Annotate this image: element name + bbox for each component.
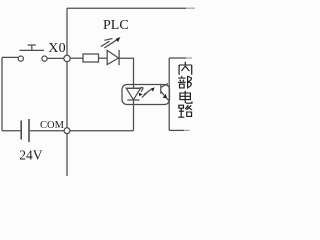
LED emission arrow upper with head [104,39,112,41]
optocoupler light arrow left with down head [136,87,143,88]
wire switch to X0 node [47,57,64,59]
glyph dian [180,91,192,103]
internal-circuit box bottom edge [169,129,184,131]
optocoupler light arrow right with up head [142,90,150,98]
LED indicator cathode bar [118,50,120,66]
wire X0 node to resistor [70,57,83,59]
wire COM rail [70,130,134,132]
svg-text:24V: 24V [19,147,43,162]
wire optocoupler cathode down to COM rail [133,100,135,131]
LED indicator diode triangle [107,50,118,64]
wire battery to COM node [30,130,64,132]
internal-circuit box top edge [169,57,186,59]
switch S contact left circle [18,56,23,61]
internal-circuit box left edge [168,58,170,130]
battery B plate left [20,121,22,140]
resistor R [83,54,99,62]
optocoupler LED cathode bar [127,99,139,101]
wire top-left horizontal to switch [2,56,18,58]
wire resistor to LED [99,57,108,59]
phototransistor collector [161,84,168,88]
PLC enclosure top edge [67,7,186,9]
LED emission arrow lower [101,41,110,46]
glyph nei [179,62,192,75]
optocoupler U box [122,85,170,105]
wire LED to corner and down to optocoupler [119,58,133,88]
optocoupler LED anode bar [126,87,141,89]
wire battery left lead [2,130,20,132]
wire left rail vertical [1,57,3,130]
battery B plate right [28,119,30,142]
phototransistor emitter [161,91,164,95]
terminal COM node circle [64,128,70,134]
switch S actuator stem [31,45,33,50]
switch S actuator cap [28,44,36,46]
optocoupler LED triangle [126,88,140,100]
phototransistor base bar [160,84,162,94]
glyph lu [178,105,192,117]
glyph bu [178,76,191,89]
svg-text:COM: COM [40,120,65,131]
svg-text:X0: X0 [48,41,66,56]
terminal X0 node circle [64,55,70,61]
switch S contact right circle [42,56,47,61]
svg-text:PLC: PLC [103,18,129,33]
switch S actuator bar [20,49,45,51]
PLC enclosure left edge [66,8,68,176]
label nei-bu-dian-lu glyphs [178,62,192,117]
